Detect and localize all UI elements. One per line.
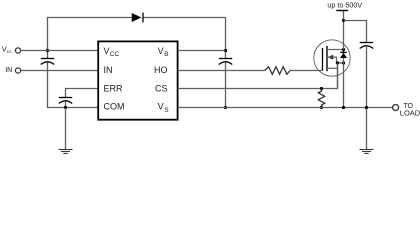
svg-text:IN: IN	[104, 65, 113, 75]
svg-text:V: V	[158, 46, 164, 56]
node dot body-source tie	[336, 61, 339, 64]
node dot drain stub	[342, 48, 345, 51]
svg-text:LOAD: LOAD	[400, 108, 420, 117]
svg-text:IN: IN	[5, 67, 12, 74]
svg-text:COM: COM	[104, 101, 125, 111]
node dot VB rail	[224, 49, 227, 52]
wire diode to VS line	[343, 58, 345, 108]
svg-text:cc: cc	[7, 50, 12, 55]
terminal IN	[15, 68, 20, 73]
channel bar	[326, 46, 328, 71]
capacitor C4 bus	[360, 43, 374, 49]
label IN	[5, 67, 12, 74]
wire C4 down to ground	[366, 46, 368, 150]
capacitor C1 Vcc bypass	[41, 59, 54, 65]
label up to 500V	[327, 0, 362, 9]
wire source to CS	[337, 63, 339, 89]
wire ERR branch	[66, 89, 99, 98]
wire drain up to supply	[343, 11, 345, 50]
gate bar	[322, 48, 324, 71]
node dot COM junction	[64, 106, 67, 109]
wire top rail diode to right corner	[143, 18, 226, 58]
node dot supply branch	[342, 19, 345, 22]
wire R1 to gate	[290, 70, 323, 72]
svg-text:up to 500V: up to 500V	[327, 0, 362, 9]
wire C3 to VS line	[225, 62, 227, 107]
terminal TO LOAD	[393, 105, 399, 111]
wire HO to gate with resistor R1	[178, 70, 266, 72]
node dot C4 VS line	[365, 106, 368, 109]
op IC U1 box	[98, 41, 177, 119]
node dot source VS	[342, 106, 345, 109]
diode D1 bootstrap	[132, 13, 143, 23]
node dot Rsense bottom	[320, 106, 323, 109]
node dot diode anode	[342, 61, 345, 64]
node dot CS Rsense top	[320, 87, 323, 90]
node dot Vcc rail	[46, 49, 49, 52]
svg-text:CC: CC	[110, 51, 120, 58]
wire branch to bus cap	[344, 21, 367, 43]
wire left rail below C1 to COM	[48, 62, 99, 107]
capacitor C2 ERR	[59, 98, 72, 104]
wire C2 to COM line	[65, 101, 67, 107]
terminal Vcc	[15, 48, 20, 53]
svg-text:HO: HO	[154, 65, 168, 75]
wire VS line to load	[178, 107, 393, 109]
wire VB pin to rail	[178, 50, 226, 52]
svg-text:V: V	[104, 46, 110, 56]
capacitor C3 bootstrap	[219, 59, 232, 65]
ground GND1	[59, 150, 73, 154]
wire top bootstrap rail	[48, 18, 132, 59]
svg-text:S: S	[164, 107, 169, 114]
drain stub	[327, 49, 344, 51]
body stub with arrow	[327, 55, 333, 60]
body diode	[343, 50, 345, 53]
node dot VS rail	[224, 106, 227, 109]
wire Vcc terminal to IC	[21, 50, 99, 52]
svg-text:B: B	[164, 51, 168, 58]
label pin VCC	[104, 46, 170, 114]
svg-text:ERR: ERR	[104, 83, 124, 93]
resistor R1 gate	[265, 67, 290, 75]
label TO LOAD	[400, 103, 420, 118]
wire ground drop	[65, 108, 67, 150]
wire CS line	[178, 63, 338, 89]
label Vcc	[2, 44, 12, 54]
resistor R2 sense	[318, 89, 324, 108]
svg-text:V: V	[158, 101, 164, 111]
supply T-bar terminal	[336, 10, 348, 12]
ground GND2	[360, 150, 374, 154]
wire IN terminal to IC	[21, 70, 99, 72]
transistor Q1 MOSFET circle	[314, 40, 350, 76]
source stub	[327, 67, 338, 69]
svg-text:CS: CS	[155, 83, 168, 93]
